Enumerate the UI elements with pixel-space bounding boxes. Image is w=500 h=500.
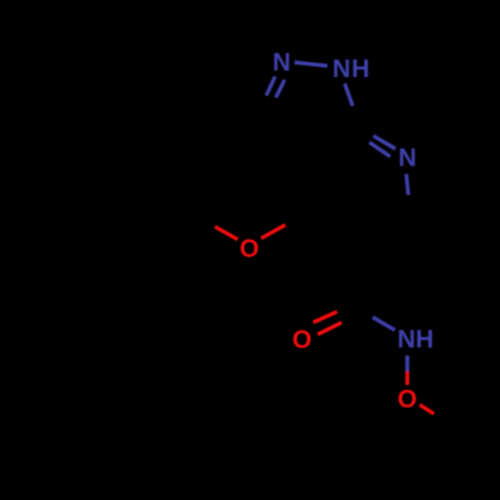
svg-text:N: N <box>397 326 415 354</box>
svg-text:O: O <box>397 386 416 414</box>
bond O-C4 right half (red, chromene ether O) <box>261 225 285 239</box>
svg-text:N: N <box>273 49 291 77</box>
bond N-O half blue (amide N to methoxy O) <box>405 356 409 372</box>
bond O-C(aryl) left half (red, chromene ether O) <box>215 227 238 240</box>
svg-text:N: N <box>398 144 416 172</box>
svg-text:N: N <box>332 55 350 83</box>
svg-text:H: H <box>416 326 434 354</box>
bond C=O double (red halves, carbonyl) <box>313 312 341 335</box>
bond N-O half red (amide N to methoxy O) <box>405 372 409 386</box>
bond C7a=N7 double (blue halves near pyridine N) <box>369 136 395 157</box>
svg-text:O: O <box>292 326 311 354</box>
bond C-N amide half (blue) <box>373 317 395 330</box>
bond N1-C7a half (blue) <box>345 84 353 107</box>
svg-text:O: O <box>240 235 259 263</box>
bond N1-N2 (pyrazole) <box>295 62 328 66</box>
bond N7-C6 half (blue) <box>406 174 408 195</box>
bond N2=C3 double (pyrazole, blue halves) <box>266 76 284 97</box>
bond O-CH3 half (red, methoxy) <box>420 405 434 414</box>
svg-text:H: H <box>351 55 369 83</box>
